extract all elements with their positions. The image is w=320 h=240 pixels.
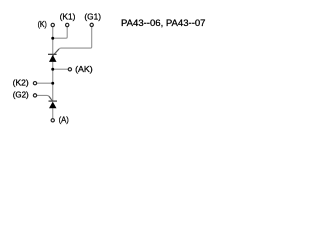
wire G2 branch horizontal bbox=[37, 95, 51, 98]
thyristor TH1 triangle bbox=[49, 55, 57, 62]
terminal circle K2 bbox=[33, 82, 36, 85]
wire main vertical bottom segment (lower thyristor to A terminal) bbox=[52, 108, 54, 118]
wire main vertical middle segment (upper thyristor to lower thyristor) bbox=[52, 62, 54, 101]
junction dot node K2 bbox=[51, 82, 54, 85]
wire G2 gate diagonal into lower thyristor bbox=[49, 96, 53, 101]
terminal circle G2 bbox=[33, 94, 36, 97]
svg-text:(G2): (G2) bbox=[13, 90, 29, 100]
terminal circle K1 bbox=[66, 23, 69, 26]
junction dot node K/K1 bbox=[51, 37, 54, 40]
thyristor TH1 cathode bar bbox=[48, 53, 57, 55]
svg-text:(K2): (K2) bbox=[13, 78, 29, 88]
svg-text:(K1): (K1) bbox=[60, 11, 76, 21]
svg-text:(K): (K) bbox=[38, 19, 47, 29]
terminal circle AK bbox=[68, 68, 71, 71]
svg-text:PA43--06, PA43--07: PA43--06, PA43--07 bbox=[121, 18, 206, 28]
wire K2 branch bbox=[37, 82, 53, 84]
terminal circle K bbox=[51, 23, 54, 26]
wire G1 gate diagonal into upper thyristor bbox=[53, 49, 59, 56]
thyristor TH2 cathode bar bbox=[49, 100, 58, 102]
svg-text:(G1): (G1) bbox=[84, 11, 101, 21]
svg-text:(AK): (AK) bbox=[75, 64, 93, 74]
thyristor TH2 triangle bbox=[49, 102, 57, 109]
wire G1 branch vertical+horizontal bbox=[56, 27, 92, 52]
junction dot node AK bbox=[51, 68, 54, 71]
terminal circle A bbox=[51, 119, 54, 122]
wire AK branch bbox=[53, 68, 68, 70]
wire main vertical top segment (K to upper thyristor) bbox=[52, 27, 54, 54]
wire K1 branch bbox=[53, 27, 67, 38]
terminal circle G1 bbox=[90, 23, 93, 26]
svg-text:(A): (A) bbox=[59, 115, 69, 125]
